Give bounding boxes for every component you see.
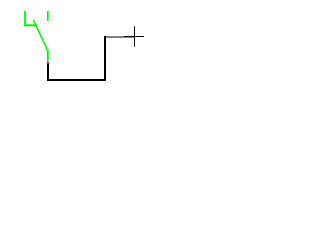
crosshair cursor [124,26,144,47]
pin 2 (right terminal) [47,11,49,21]
contact bar [24,24,37,26]
wire (placed black segments) [48,36,105,80]
pin 1 (left terminal) [24,11,26,26]
lever arm [33,20,48,51]
wire (gray rubber-band segment to cursor) [104,36,135,38]
pin 3 (common terminal) [47,49,49,63]
switch SW1 (green symbol) [24,11,48,63]
connection snap dot [47,62,49,64]
